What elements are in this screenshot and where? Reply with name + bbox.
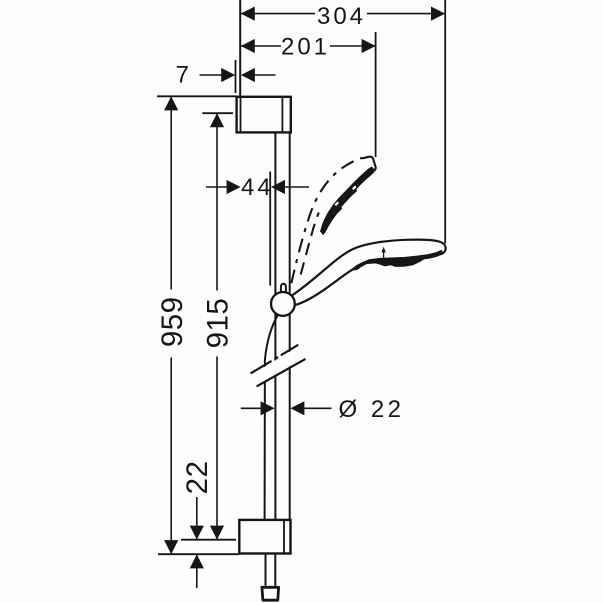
wire: rail left edge	[274, 133, 276, 520]
dim 201 line	[241, 45, 281, 47]
wire: extension line E (44 dim, down to slider)	[269, 172, 271, 286]
spray face of head (dark band)	[353, 250, 444, 271]
dim 915 line	[216, 113, 218, 290]
svg-text:22: 22	[181, 460, 214, 494]
wire: extension line top of rail (959 ref)	[157, 95, 237, 97]
dim 959 line	[170, 96, 172, 289]
wire: hose from handle down left side of rail	[265, 315, 278, 520]
dashed outline: raised position outer curve	[291, 158, 362, 283]
hose outlet below lower bracket	[265, 554, 267, 586]
dim 22 line (vertical, bottom)	[196, 497, 198, 540]
svg-text:44: 44	[241, 174, 274, 201]
svg-text:304: 304	[317, 3, 366, 30]
raised head spray face (dark band)	[320, 167, 375, 236]
svg-text:Ø 22: Ø 22	[338, 396, 404, 423]
upper wall bracket	[237, 97, 291, 133]
raised head end cap (solid)	[362, 157, 376, 171]
wire: extension line 959 bottom ref	[158, 553, 239, 555]
dim diameter 22 line	[241, 407, 263, 409]
lower wall bracket	[239, 520, 290, 554]
wire: extension line 915/22 bottom ref	[181, 539, 236, 541]
break line 1	[251, 345, 299, 374]
wire: extension line A (wall face, from top edge to upper bracket)	[239, 0, 241, 97]
wire: extension line 915 top ref	[202, 112, 233, 114]
dim 7 line	[200, 74, 224, 76]
break line 2	[257, 359, 306, 387]
wire: extension line B (right end of head, 304 dim)	[444, 0, 446, 244]
dashed outline: raised position inner curve	[301, 213, 319, 275]
svg-text:201: 201	[281, 34, 330, 61]
dim 304 line	[241, 13, 315, 15]
slider (pivot knob on rail)	[271, 292, 295, 316]
wire: extension line D (7 dim, bracket outer face)	[235, 60, 237, 93]
white notches in raised spray face	[335, 202, 340, 207]
svg-text:959: 959	[156, 296, 189, 347]
svg-text:7: 7	[176, 62, 192, 89]
break band (rail shortened symbol)	[252, 346, 305, 385]
hand shower grip and head (solid outline)	[292, 240, 445, 305]
slider release button	[281, 284, 286, 296]
wire: rail right edge	[289, 133, 291, 520]
hose nut	[262, 587, 279, 600]
svg-text:915: 915	[202, 298, 235, 349]
small jet arrow on head	[383, 250, 385, 262]
wire: extension line C (201 dim down to dashed head tip)	[375, 32, 377, 157]
dim 44 line	[206, 186, 229, 188]
